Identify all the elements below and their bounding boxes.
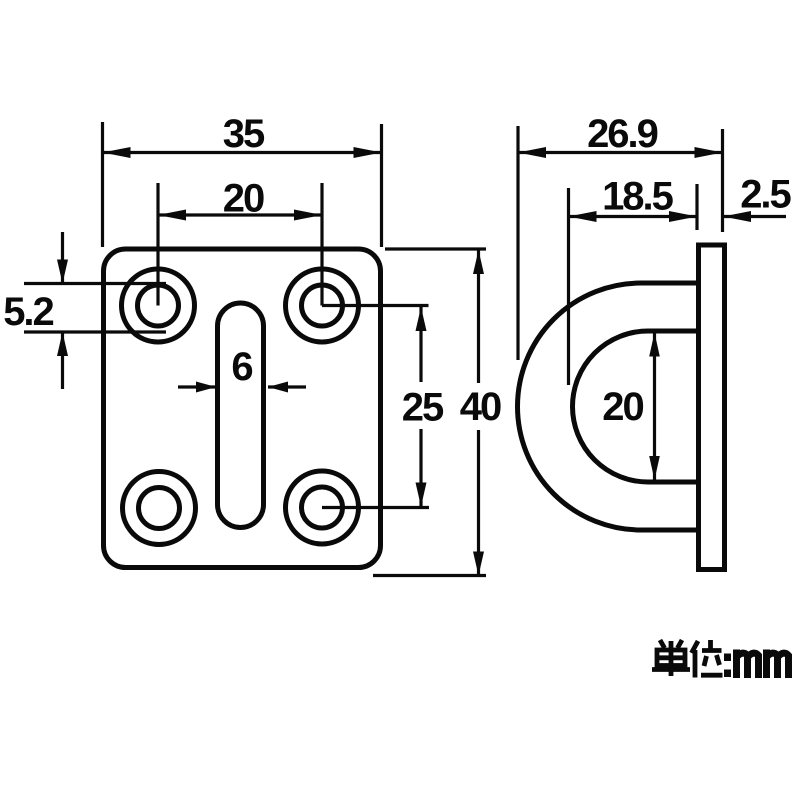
hole bottom-right bore [302,487,343,528]
side view plate edge [699,245,725,570]
arrow 25 down [416,483,427,507]
arrow 18.5 left [569,211,597,222]
dim 5.2 extension bottom [24,330,166,333]
dim 20 extension / centerline left [156,183,159,306]
dim 20 side line [653,333,656,481]
arrow 18.5 right [669,211,697,222]
svg-text:26.9: 26.9 [587,112,658,156]
front view plate outline [104,249,381,568]
arrow 20 right [294,210,322,221]
svg-text:20: 20 [223,177,264,221]
arrow side 20 up [649,333,660,357]
hole bottom-left counterbore [123,472,196,545]
dim 25 extension bottom (hole centerline) [322,506,429,509]
dim 40 extension top [385,247,486,250]
hole top-right counterbore [286,269,359,342]
svg-text:6: 6 [231,345,252,389]
unit note: mm letters [737,650,789,679]
svg-text:25: 25 [402,386,444,430]
dim 20 line [158,213,322,216]
arrow 40 up [473,250,484,274]
dim 18.5 line [569,215,698,218]
arrow 26.9 left [518,147,546,158]
svg-text:5.2: 5.2 [3,290,53,334]
arrow 2.5 left [723,211,751,222]
dim 26.9 line [518,151,723,154]
arrow 5.2 up [57,332,68,356]
dim 5.2 leader line [61,232,64,389]
dim 26.9 extension right [721,129,724,232]
dim 6 line right [268,385,306,388]
svg-text:40: 40 [460,385,501,429]
unit note: tan-i (unit) glyph [652,640,690,676]
arrow 25 up [416,307,427,331]
dim 25 line [419,307,422,507]
unit note: colon [724,654,731,678]
arrow 26.9 right [695,147,723,158]
arrow 6 right [196,382,216,393]
side view loop inner contour [573,331,701,482]
dim 40 line [477,250,480,576]
arrow 40 down [473,552,484,576]
center slot obround [218,303,264,528]
dim 18.5 extension right [695,184,698,230]
dim 5.2 extension top [24,282,166,285]
dim 35 extension left [101,122,104,247]
dim 26.9 extension left [516,126,519,360]
svg-text:2.5: 2.5 [740,173,791,217]
side view loop outer contour [518,283,701,530]
hole top-left counterbore [122,269,195,342]
dim 40 extension bottom [373,574,486,577]
dim 2.5 line [723,215,786,218]
arrow side 20 down [649,456,660,480]
unit note: i (rank) glyph [692,640,723,678]
arrow 35 left [103,147,131,158]
dim 25 extension top (hole centerline) [322,304,429,307]
svg-text:35: 35 [223,112,265,156]
arrow 35 right [354,147,382,158]
arrow 6 left [268,382,288,393]
hole top-left bore [138,285,179,326]
svg-text:18.5: 18.5 [602,175,674,219]
hole bottom-left bore [139,488,180,529]
dim 35 extension right [380,124,383,247]
arrow 20 left [158,210,186,221]
svg-text:20: 20 [602,385,643,429]
dim 35 line [103,151,382,154]
dim 18.5 extension left [567,188,570,385]
hole bottom-right counterbore [286,471,359,544]
arrow 5.2 down [57,260,68,284]
dim 6 line left [178,385,216,388]
dim 20 extension / centerline right [320,183,323,306]
hole top-right bore [302,285,343,326]
